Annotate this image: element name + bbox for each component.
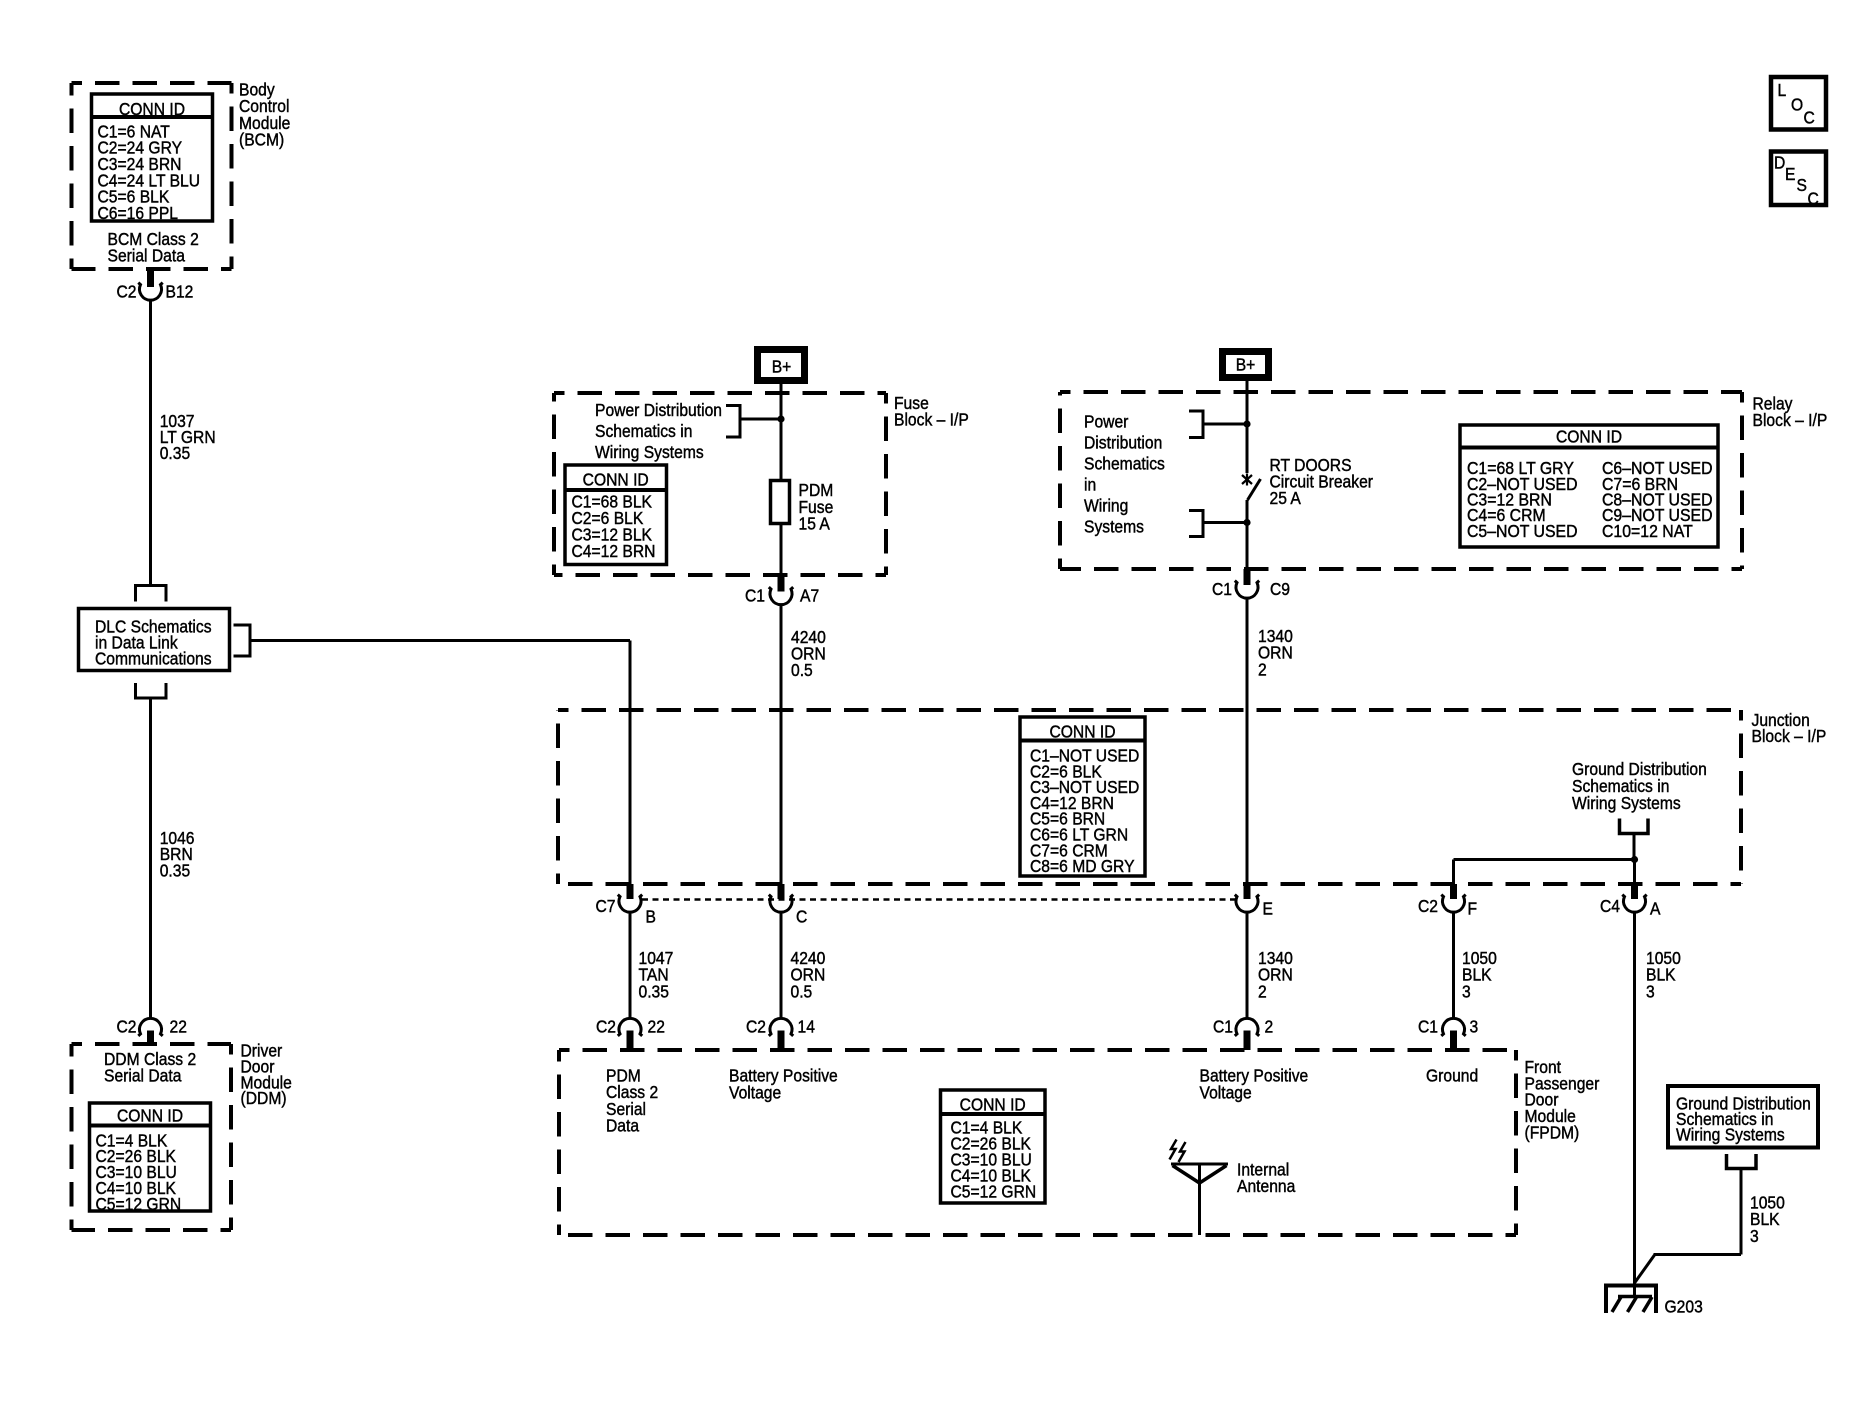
svg-text:B+: B+ xyxy=(1236,355,1256,375)
svg-text:Wiring Systems: Wiring Systems xyxy=(595,442,704,462)
svg-text:CONN ID: CONN ID xyxy=(117,1106,183,1126)
svg-text:CONN ID: CONN ID xyxy=(119,99,185,119)
svg-text:A: A xyxy=(1650,899,1661,919)
svg-text:0.5: 0.5 xyxy=(791,660,813,680)
svg-text:Systems: Systems xyxy=(1084,517,1144,537)
svg-text:3: 3 xyxy=(1470,1017,1479,1037)
svg-text:3: 3 xyxy=(1462,981,1471,1001)
svg-text:CONN ID: CONN ID xyxy=(1556,427,1622,447)
svg-text:in: in xyxy=(1084,475,1096,495)
svg-text:Power: Power xyxy=(1084,412,1129,432)
svg-text:Wiring Systems: Wiring Systems xyxy=(1572,793,1681,813)
svg-text:0.35: 0.35 xyxy=(639,981,669,1001)
svg-text:Schematics in: Schematics in xyxy=(595,421,692,441)
svg-text:(DDM): (DDM) xyxy=(241,1088,287,1108)
svg-text:C1: C1 xyxy=(1213,1017,1233,1037)
svg-text:25 A: 25 A xyxy=(1270,488,1302,508)
svg-text:C9: C9 xyxy=(1270,579,1290,599)
svg-text:3: 3 xyxy=(1750,1226,1759,1246)
svg-text:2: 2 xyxy=(1265,1017,1274,1037)
svg-text:Communications: Communications xyxy=(95,649,212,669)
svg-text:Block – I/P: Block – I/P xyxy=(1753,410,1828,430)
svg-text:G203: G203 xyxy=(1665,1296,1703,1316)
svg-text:C: C xyxy=(1804,108,1815,128)
svg-text:Ground: Ground xyxy=(1426,1066,1478,1086)
svg-text:A7: A7 xyxy=(800,586,819,606)
svg-text:Serial Data: Serial Data xyxy=(108,245,186,265)
svg-text:Power Distribution: Power Distribution xyxy=(595,400,722,420)
svg-text:F: F xyxy=(1468,899,1478,919)
svg-text:2: 2 xyxy=(1258,981,1267,1001)
svg-text:C4=12 BRN: C4=12 BRN xyxy=(572,541,656,561)
svg-text:B12: B12 xyxy=(166,282,194,302)
svg-text:0.35: 0.35 xyxy=(160,860,190,880)
svg-text:(BCM): (BCM) xyxy=(239,129,284,149)
svg-text:C5–NOT USED: C5–NOT USED xyxy=(1467,521,1578,541)
svg-text:C8=6 MD GRY: C8=6 MD GRY xyxy=(1030,856,1135,876)
svg-text:C6=16 PPL: C6=16 PPL xyxy=(98,203,178,223)
svg-text:C2: C2 xyxy=(1418,896,1438,916)
svg-text:C2: C2 xyxy=(596,1017,616,1037)
svg-text:C2: C2 xyxy=(116,1017,136,1037)
svg-text:C1: C1 xyxy=(745,586,765,606)
svg-text:S: S xyxy=(1797,175,1807,195)
svg-text:0.35: 0.35 xyxy=(160,443,190,463)
svg-text:(FPDM): (FPDM) xyxy=(1525,1122,1580,1142)
svg-text:Block – I/P: Block – I/P xyxy=(1752,726,1827,746)
svg-text:CONN ID: CONN ID xyxy=(583,469,649,489)
svg-text:CONN ID: CONN ID xyxy=(1049,721,1115,741)
svg-text:Data: Data xyxy=(606,1115,640,1135)
svg-text:C2: C2 xyxy=(746,1017,766,1037)
svg-text:C2: C2 xyxy=(116,282,136,302)
svg-text:Schematics: Schematics xyxy=(1084,454,1165,474)
svg-text:C10=12 NAT: C10=12 NAT xyxy=(1602,521,1693,541)
svg-text:O: O xyxy=(1791,95,1803,115)
svg-text:E: E xyxy=(1263,899,1273,919)
svg-text:L: L xyxy=(1778,80,1787,100)
svg-text:22: 22 xyxy=(170,1017,187,1037)
svg-text:Wiring Systems: Wiring Systems xyxy=(1676,1125,1785,1145)
svg-text:C: C xyxy=(796,907,807,927)
svg-text:14: 14 xyxy=(798,1017,815,1037)
svg-text:Voltage: Voltage xyxy=(1200,1082,1252,1102)
svg-text:0.5: 0.5 xyxy=(791,981,813,1001)
svg-text:C4: C4 xyxy=(1600,896,1620,916)
svg-text:Voltage: Voltage xyxy=(729,1082,781,1102)
svg-text:Wiring: Wiring xyxy=(1084,496,1128,516)
svg-text:C5=12 GRN: C5=12 GRN xyxy=(951,1182,1037,1202)
svg-text:C1: C1 xyxy=(1418,1017,1438,1037)
svg-text:D: D xyxy=(1774,153,1785,173)
svg-text:C: C xyxy=(1808,188,1819,208)
svg-text:B+: B+ xyxy=(772,357,792,377)
svg-text:Antenna: Antenna xyxy=(1237,1176,1296,1196)
svg-text:B: B xyxy=(646,907,656,927)
svg-text:22: 22 xyxy=(648,1017,665,1037)
svg-text:2: 2 xyxy=(1258,659,1267,679)
svg-text:Serial Data: Serial Data xyxy=(104,1065,182,1085)
svg-text:Distribution: Distribution xyxy=(1084,433,1162,453)
svg-text:Block – I/P: Block – I/P xyxy=(894,410,969,430)
svg-text:E: E xyxy=(1785,164,1795,184)
svg-text:C1: C1 xyxy=(1212,579,1232,599)
svg-text:CONN ID: CONN ID xyxy=(960,1094,1026,1114)
svg-text:C7: C7 xyxy=(595,896,615,916)
svg-text:C5=12 GRN: C5=12 GRN xyxy=(96,1194,182,1214)
svg-text:3: 3 xyxy=(1646,981,1655,1001)
svg-text:15 A: 15 A xyxy=(799,513,831,533)
